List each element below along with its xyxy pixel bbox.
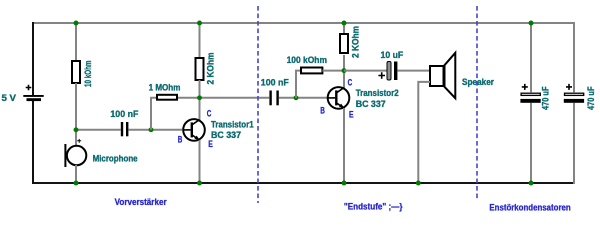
svg-text:Enstörkondensatoren: Enstörkondensatoren	[489, 203, 570, 213]
svg-text:2 KOhm: 2 KOhm	[351, 26, 362, 58]
dashed separator line 2	[476, 6, 478, 200]
label Microphone	[93, 154, 138, 164]
wire mic node to capacitor C1	[76, 129, 121, 131]
svg-text:Transistor1: Transistor1	[211, 120, 254, 130]
svg-text:100 nF: 100 nF	[110, 109, 138, 119]
svg-text:100 kOhm: 100 kOhm	[287, 55, 327, 65]
label Transistor2	[356, 88, 399, 98]
label 100 nF C2	[261, 78, 289, 88]
label C T2	[348, 77, 353, 87]
node base T2 / 100kOhm junction	[294, 95, 299, 100]
label 5 V	[2, 93, 17, 103]
microphone	[65, 139, 86, 167]
wire top rail +5V	[33, 22, 574, 24]
wire 2KOhm2 to collector node T2	[343, 55, 345, 88]
label 10 kOhm	[83, 61, 94, 88]
wire T2 emitter to bottom rail	[343, 108, 345, 183]
node collector T1	[197, 95, 202, 100]
label B T1	[178, 134, 183, 144]
wire 100kOhm right lead	[322, 70, 344, 72]
svg-text:B: B	[178, 134, 183, 144]
wire T1 emitter to bottom rail	[199, 140, 201, 183]
wire 470uF cap2 column / right edge	[573, 22, 575, 184]
node base T1 / 1MOhm junction	[149, 127, 154, 132]
svg-text:2 KOhm: 2 KOhm	[206, 53, 217, 85]
node bottom rail at 470uF	[529, 181, 534, 186]
resistor R5 2 KOhm	[340, 34, 348, 53]
wire 10kOhm column	[75, 23, 77, 61]
resistor R2 2 KOhm	[196, 58, 204, 80]
svg-text:"Endstufe" ;—}: "Endstufe" ;—}	[344, 201, 403, 211]
resistor R1 10 kOhm	[72, 61, 80, 83]
wire collector node to C3	[344, 70, 387, 72]
wire speaker bottom terminal to bottom rail	[418, 82, 430, 183]
node bottom rail at mic	[74, 181, 79, 186]
wire bottom rail GND	[32, 182, 575, 184]
svg-text:Microphone: Microphone	[93, 154, 138, 164]
svg-text:Transistor2: Transistor2	[356, 88, 399, 98]
label 2 KOhm R5	[351, 26, 362, 58]
label Transistor1	[211, 120, 254, 130]
wire C2 to T2 base	[279, 97, 327, 99]
svg-text:1 MOhm: 1 MOhm	[149, 83, 181, 93]
wire 470uF cap1 column	[530, 23, 532, 183]
label C T1	[207, 109, 212, 119]
wire 10kOhm to mic node	[75, 83, 77, 146]
node bottom rail at T1 emitter	[197, 181, 202, 186]
node collector T2	[342, 68, 347, 73]
svg-text:10 kOhm: 10 kOhm	[83, 61, 94, 88]
label Enstörkondensatoren	[489, 203, 570, 213]
capacitor C4 470 uF	[520, 84, 540, 103]
label 470 uF C5	[586, 86, 596, 110]
wire 100kOhm left lead	[296, 71, 301, 98]
label 100 nF	[110, 109, 138, 119]
capacitor C2 100 nF	[269, 91, 278, 106]
wire C3 to speaker	[397, 70, 430, 72]
label E T1	[208, 139, 213, 149]
svg-text:470 uF: 470 uF	[586, 86, 596, 110]
label 1 MOhm	[149, 83, 181, 93]
label 100 kOhm	[287, 55, 327, 65]
svg-text:10 uF: 10 uF	[381, 50, 404, 60]
svg-text:470 uF: 470 uF	[540, 86, 550, 110]
label B T2	[320, 106, 325, 116]
wire 1 MOhm left lead	[151, 98, 157, 130]
svg-text:C: C	[207, 109, 212, 119]
battery 5V	[23, 85, 43, 101]
svg-text:5 V: 5 V	[2, 93, 17, 103]
capacitor C1 100 nF	[121, 122, 129, 136]
wire 2KOhm column top	[199, 23, 201, 58]
wire 2KOhm to collector node	[199, 80, 201, 120]
svg-text:Vorverstärker: Vorverstärker	[115, 197, 167, 207]
label Speaker	[462, 77, 494, 87]
svg-text:100 nF: 100 nF	[261, 78, 289, 88]
svg-text:BC 337: BC 337	[211, 130, 241, 140]
label BC 337 T1	[211, 130, 241, 140]
node top rail at 10kOhm	[74, 21, 79, 26]
wire battery column	[32, 22, 34, 184]
node top rail at 470uF	[529, 21, 534, 26]
label BC 337 T2	[356, 99, 386, 109]
transistor T2 BC337	[328, 87, 350, 109]
svg-text:C: C	[348, 77, 353, 87]
svg-text:B: B	[320, 106, 325, 116]
label 2 KOhm	[206, 53, 217, 85]
svg-text:E: E	[349, 110, 354, 120]
wire mic to bottom rail	[75, 165, 77, 183]
label Vorverstärker	[115, 197, 167, 207]
resistor R3 1 MOhm	[157, 95, 177, 100]
node top rail at 2KOhm2	[342, 21, 347, 26]
capacitor C5 470 uF	[564, 84, 584, 103]
label 470 uF C4	[540, 86, 550, 110]
node mic top	[74, 127, 79, 132]
svg-text:E: E	[208, 139, 213, 149]
svg-text:BC 337: BC 337	[356, 99, 386, 109]
wire C1 to transistor T1 base	[129, 129, 182, 131]
svg-text:Speaker: Speaker	[462, 77, 494, 87]
dashed separator line 1	[257, 6, 259, 203]
wire 1 MOhm right lead to collector node and on to C2	[178, 97, 269, 99]
label Endstufe	[344, 201, 403, 211]
speaker LS1	[430, 53, 455, 98]
label 10 uF	[381, 50, 404, 60]
label E T2	[349, 110, 354, 120]
node top rail at 2KOhm	[197, 21, 202, 26]
capacitor C3 10 uF electrolytic	[378, 62, 397, 81]
wire 2KOhm2 column top	[343, 23, 345, 34]
node bottom rail at speaker	[416, 181, 421, 186]
node bottom rail at T2 emitter	[342, 181, 347, 186]
transistor T1 BC337	[183, 119, 205, 141]
resistor R4 100 kOhm	[301, 68, 322, 74]
